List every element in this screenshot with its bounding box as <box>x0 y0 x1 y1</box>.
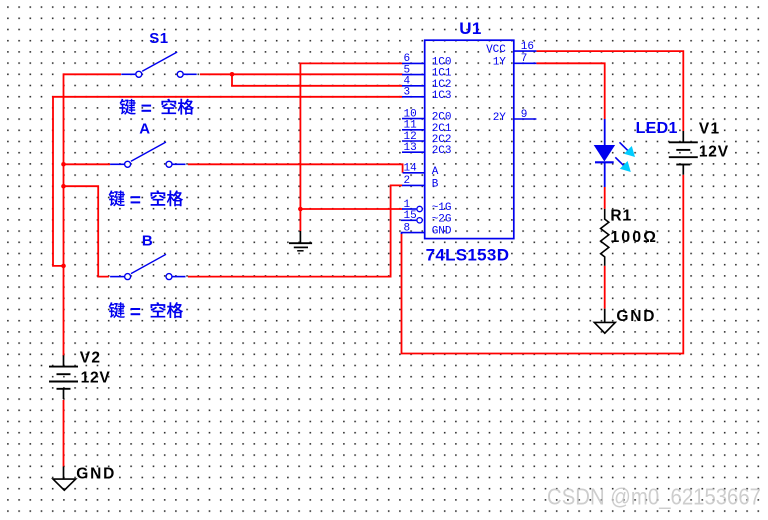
svg-text:CSDN @m0_62153667: CSDN @m0_62153667 <box>547 484 761 510</box>
svg-text:2C3: 2C3 <box>432 145 452 157</box>
svg-text:GND: GND <box>432 226 452 238</box>
svg-text:V2: V2 <box>80 349 102 366</box>
svg-text:7: 7 <box>521 53 528 65</box>
svg-text:2: 2 <box>404 175 411 187</box>
svg-text:2C0: 2C0 <box>432 112 452 124</box>
svg-text:A: A <box>139 120 150 137</box>
svg-text:2C2: 2C2 <box>432 134 452 146</box>
svg-text:B: B <box>142 232 153 249</box>
svg-text:100Ω: 100Ω <box>610 229 658 246</box>
svg-text:12: 12 <box>404 131 417 143</box>
svg-text:R1: R1 <box>610 208 632 225</box>
svg-text:2Y: 2Y <box>493 112 507 124</box>
svg-text:S1: S1 <box>149 30 168 47</box>
svg-text:74LS153D: 74LS153D <box>426 245 510 264</box>
svg-text:B: B <box>432 178 439 190</box>
svg-text:A: A <box>432 166 439 178</box>
svg-text:13: 13 <box>404 142 417 154</box>
svg-text:16: 16 <box>521 41 534 53</box>
svg-text:10: 10 <box>404 108 417 120</box>
svg-text:3: 3 <box>404 87 411 99</box>
svg-text:15: 15 <box>404 210 417 222</box>
svg-text:U1: U1 <box>459 19 482 38</box>
svg-text:VCC: VCC <box>486 44 506 56</box>
svg-text:5: 5 <box>404 64 411 76</box>
svg-text:~1G: ~1G <box>432 202 452 214</box>
svg-text:12V: 12V <box>699 143 729 160</box>
svg-text:6: 6 <box>404 53 411 65</box>
svg-text:V1: V1 <box>699 121 721 138</box>
svg-text:9: 9 <box>521 109 528 121</box>
svg-text:1C0: 1C0 <box>432 56 452 68</box>
svg-text:GND: GND <box>76 465 116 482</box>
svg-text:12V: 12V <box>81 369 111 386</box>
svg-text:1C3: 1C3 <box>432 90 452 102</box>
svg-text:~2G: ~2G <box>432 213 452 225</box>
svg-text:1C1: 1C1 <box>432 68 452 80</box>
svg-text:11: 11 <box>404 120 418 132</box>
svg-text:1: 1 <box>404 199 411 211</box>
svg-text:1Y: 1Y <box>493 56 507 68</box>
svg-text:LED1: LED1 <box>636 120 678 137</box>
svg-text:14: 14 <box>404 163 418 175</box>
svg-text:2C1: 2C1 <box>432 123 452 135</box>
svg-text:GND: GND <box>616 308 656 325</box>
svg-text:8: 8 <box>404 222 411 234</box>
